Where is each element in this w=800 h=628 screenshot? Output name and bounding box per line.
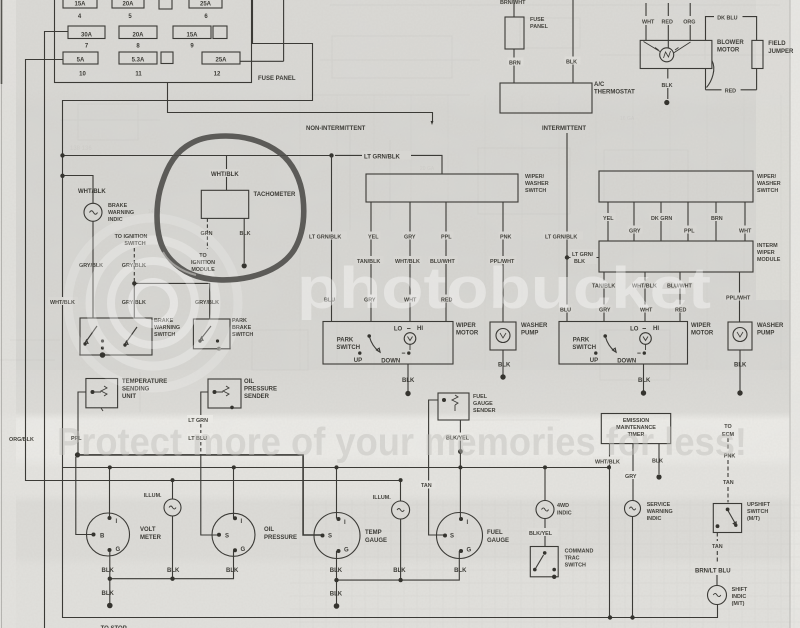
svg-text:GAUGE: GAUGE xyxy=(365,538,387,544)
fuse 25A #12 xyxy=(202,52,240,64)
fuse spare small row1 xyxy=(159,0,172,9)
wire PNK/TAN dashed from ECM xyxy=(727,438,729,502)
svg-text:FUSE: FUSE xyxy=(530,17,545,23)
svg-text:S: S xyxy=(328,534,332,540)
wire BLK tach ground xyxy=(243,218,245,263)
temperature sending unit box xyxy=(86,379,118,408)
svg-text:PRESSURE: PRESSURE xyxy=(264,535,297,541)
svg-text:FUEL: FUEL xyxy=(487,530,503,536)
svg-text:RED: RED xyxy=(725,88,736,94)
oil pressure sender box xyxy=(208,379,241,408)
svg-text:TRAC: TRAC xyxy=(565,556,580,562)
fuse 25A #6 xyxy=(189,0,222,8)
fuse 15A #9 xyxy=(173,26,211,39)
svg-text:G: G xyxy=(241,547,246,553)
svg-text:DOWN: DOWN xyxy=(381,358,400,364)
svg-text:BRN: BRN xyxy=(711,216,723,222)
svg-text:WHT/BLK: WHT/BLK xyxy=(211,172,239,178)
svg-text:BRAKE: BRAKE xyxy=(108,203,128,209)
drops to gauge I pins xyxy=(110,468,337,519)
svg-text:PPL: PPL xyxy=(684,229,695,235)
svg-text:MOTOR: MOTOR xyxy=(456,331,479,337)
switch2 to module wires xyxy=(608,202,745,241)
svg-text:PUMP: PUMP xyxy=(757,331,774,337)
wire GRN dashed to ignition module xyxy=(206,218,208,249)
svg-text:UP: UP xyxy=(354,358,362,364)
svg-text:INDIC: INDIC xyxy=(647,516,662,522)
svg-text:138 136: 138 136 xyxy=(70,146,92,152)
svg-text:GRY: GRY xyxy=(625,474,637,480)
svg-text:UNIT: UNIT xyxy=(122,394,136,400)
svg-text:HI: HI xyxy=(653,326,659,332)
svg-text:BLK: BLK xyxy=(102,591,115,597)
blower motor wires WHT RED ORG xyxy=(646,3,690,48)
svg-text:20 GA: 20 GA xyxy=(420,166,435,172)
svg-text:SWITCH: SWITCH xyxy=(525,188,546,194)
svg-text:WIPER: WIPER xyxy=(757,250,775,256)
svg-text:SENDER: SENDER xyxy=(473,408,496,414)
wire BLK to A/C thermostat xyxy=(572,0,574,83)
svg-text:DK BLU: DK BLU xyxy=(717,16,737,22)
svg-text:BLK: BLK xyxy=(330,568,343,574)
svg-text:BLK: BLK xyxy=(734,363,747,369)
svg-text:BLK: BLK xyxy=(393,568,406,574)
wire 30A fuse long left vertical xyxy=(45,32,69,628)
svg-text:BLOWER: BLOWER xyxy=(717,40,744,46)
interm wiper module box xyxy=(599,241,753,272)
svg-text:(M/T): (M/T) xyxy=(732,601,745,607)
brake warning switch box xyxy=(80,318,152,355)
wire gry/blk down to brake warning switch xyxy=(133,283,135,318)
wire LT GRN / LT BLU oil sender to oil gauge B xyxy=(201,392,208,412)
svg-text:MOTOR: MOTOR xyxy=(691,331,714,337)
svg-text:LO: LO xyxy=(394,327,403,333)
svg-text:YEL: YEL xyxy=(368,235,379,241)
upshift switch box xyxy=(713,504,741,533)
svg-text:METER: METER xyxy=(140,535,162,541)
ground dot right gauge group xyxy=(334,603,340,609)
svg-text:BLK: BLK xyxy=(662,83,673,89)
svg-text:WARNING: WARNING xyxy=(108,210,134,216)
svg-text:15A: 15A xyxy=(74,2,86,8)
wire BRN/LT BLU to shift indic xyxy=(716,575,718,586)
4WD indic lamp xyxy=(536,501,554,519)
svg-text:PUMP: PUMP xyxy=(521,331,538,337)
svg-text:COMMAND: COMMAND xyxy=(565,549,594,555)
svg-text:SWITCH: SWITCH xyxy=(572,345,596,351)
wire fuel sender down through bus2 to fuel I xyxy=(459,420,461,519)
oil pressure gauge xyxy=(212,513,255,556)
fuse panel connector box top-right xyxy=(505,17,524,49)
wire TAN below upshift dashed xyxy=(716,533,718,564)
wire GRY to service warning indic xyxy=(632,444,634,501)
park brake switch box xyxy=(193,319,230,349)
svg-text:5.3A: 5.3A xyxy=(132,58,145,64)
svg-text:FUSE PANEL: FUSE PANEL xyxy=(258,76,296,82)
svg-text:PPL: PPL xyxy=(441,235,452,241)
svg-text:BLK: BLK xyxy=(240,231,251,237)
svg-text:OIL: OIL xyxy=(244,379,254,385)
node fuel sender splice xyxy=(458,449,463,454)
wire BLK gauge grounds right group xyxy=(337,519,460,580)
wire to-ignition-switch dashed xyxy=(133,248,135,283)
svg-text:WHT: WHT xyxy=(642,20,655,26)
svg-text:SENDER: SENDER xyxy=(244,394,270,400)
wire PPL temp unit to bus xyxy=(78,392,86,453)
emission maintenance timer box xyxy=(601,414,670,444)
hand-drawn marker circle around tachometer xyxy=(157,136,304,280)
node junctions left xyxy=(60,153,64,157)
svg-text:BLK: BLK xyxy=(402,378,415,384)
command trac switch box xyxy=(530,547,558,577)
svg-text:VOLT: VOLT xyxy=(140,527,156,533)
svg-text:WHT/BLK: WHT/BLK xyxy=(78,189,106,195)
svg-text:FIELD: FIELD xyxy=(768,41,786,47)
shift indic lamp xyxy=(708,586,727,605)
wire brake warning indic down xyxy=(92,221,94,318)
svg-text:WHT: WHT xyxy=(739,229,752,235)
fuse panel outline xyxy=(55,0,252,83)
svg-text:FUEL: FUEL xyxy=(473,394,488,400)
temp gauge xyxy=(314,513,360,559)
svg-text:OIL: OIL xyxy=(264,527,274,533)
wire LT GRN/BLK feed to wiper switch 1 xyxy=(331,155,333,322)
svg-text:SWITCH: SWITCH xyxy=(747,509,768,515)
fuse 30A #7 xyxy=(68,26,105,39)
junction nodes on WHT/BLK bus xyxy=(108,465,112,469)
svg-text:WASHER: WASHER xyxy=(521,323,548,329)
wire WHT/BLK tach feed horizontal xyxy=(63,155,332,157)
svg-text:BLK: BLK xyxy=(566,60,577,66)
svg-text:G: G xyxy=(467,548,472,554)
svg-text:BLK: BLK xyxy=(498,363,511,369)
svg-text:25A: 25A xyxy=(215,58,227,64)
svg-text:HI: HI xyxy=(417,326,423,332)
wiper motor 2 box xyxy=(559,322,688,365)
svg-text:SWITCH: SWITCH xyxy=(336,345,360,351)
module output wires xyxy=(604,272,740,322)
wire brake warning indic feed xyxy=(63,176,94,204)
wiper/washer switch 1 box xyxy=(366,174,518,202)
svg-text:BLK: BLK xyxy=(226,568,239,574)
svg-text:12: 12 xyxy=(214,72,221,78)
fuse spare small row2 xyxy=(213,26,227,39)
svg-text:GAUGE: GAUGE xyxy=(473,401,493,407)
svg-text:16 GA: 16 GA xyxy=(620,116,635,122)
fuse 20A #8 xyxy=(119,26,157,39)
A/C thermostat box xyxy=(500,83,592,113)
svg-text:ILLUM.: ILLUM. xyxy=(144,493,162,499)
wire 4wd indic drop xyxy=(544,467,546,500)
svg-text:PNK: PNK xyxy=(500,235,511,241)
DK BLU bracket xyxy=(706,17,757,41)
svg-text:5A: 5A xyxy=(77,58,85,64)
volt meter gauge xyxy=(87,513,130,556)
svg-text:PPL/WHT: PPL/WHT xyxy=(726,296,751,302)
svg-text:B: B xyxy=(100,534,105,540)
svg-text:WARNING: WARNING xyxy=(647,509,673,515)
svg-text:SWITCH: SWITCH xyxy=(757,188,778,194)
svg-text:A/C: A/C xyxy=(594,82,605,88)
faint scan ghost texture xyxy=(0,5,790,420)
svg-text:LT GRN/BLK: LT GRN/BLK xyxy=(364,155,401,161)
wire WHT/BLK timer leg xyxy=(609,444,611,618)
svg-text:WASHER: WASHER xyxy=(757,181,781,187)
svg-text:JUMPER: JUMPER xyxy=(768,49,794,55)
tachometer U1 box xyxy=(201,190,248,218)
wiper/washer switch 2 box xyxy=(599,171,753,202)
svg-text:ILLUM.: ILLUM. xyxy=(373,495,391,501)
svg-text:INDIC: INDIC xyxy=(732,594,747,600)
wire volt meter B stub xyxy=(76,457,94,535)
svg-text:S: S xyxy=(225,534,229,540)
wire TAN fuel B feed xyxy=(429,400,444,535)
wire WHT/BLK I-pin bus xyxy=(63,467,610,469)
wire thick PPL bus to temp gauge B xyxy=(78,455,324,535)
svg-text:WIPER: WIPER xyxy=(456,323,476,329)
fuse spare small row3 xyxy=(161,52,173,64)
svg-text:GRY: GRY xyxy=(629,229,641,235)
svg-text:GAUGE: GAUGE xyxy=(487,538,509,544)
svg-text:INDIC: INDIC xyxy=(557,511,572,517)
svg-text:PARK: PARK xyxy=(337,338,354,344)
svg-text:BLK: BLK xyxy=(330,592,343,598)
wire RED loop xyxy=(706,61,757,90)
svg-text:DOWN: DOWN xyxy=(617,358,636,364)
svg-text:G: G xyxy=(344,548,349,554)
svg-text:PRESSURE: PRESSURE xyxy=(244,387,277,393)
svg-text:BLK: BLK xyxy=(167,568,180,574)
svg-text:TAN: TAN xyxy=(723,480,734,486)
svg-text:TAN: TAN xyxy=(421,483,432,489)
washer pump 2 box xyxy=(728,322,752,350)
fuse 15A #4 xyxy=(63,0,97,8)
svg-text:20A: 20A xyxy=(122,2,134,8)
wire BLK/YEL to command trac xyxy=(544,519,546,547)
svg-text:RED: RED xyxy=(662,20,673,26)
svg-text:BLK: BLK xyxy=(454,568,467,574)
svg-text:WASHER: WASHER xyxy=(525,181,549,187)
svg-text:TEMP: TEMP xyxy=(365,530,382,536)
svg-text:BRN/LT BLU: BRN/LT BLU xyxy=(695,569,731,575)
wire BLK washer1 ground xyxy=(502,350,504,375)
fuel gauge xyxy=(437,513,483,559)
blower motor box xyxy=(640,40,712,68)
svg-text:WIPER/: WIPER/ xyxy=(757,174,777,180)
svg-text:INTERMITTENT: INTERMITTENT xyxy=(542,126,586,132)
svg-text:4WD: 4WD xyxy=(557,503,569,509)
service warning indic lamp xyxy=(625,501,641,517)
svg-text:NON-INTERMITTENT: NON-INTERMITTENT xyxy=(306,126,366,132)
fuse 5.3A #11 xyxy=(119,52,157,64)
svg-text:TAN: TAN xyxy=(712,544,723,550)
wire 25A fuse12 up to top edge xyxy=(240,0,284,61)
svg-text:25A: 25A xyxy=(200,2,212,8)
wire tachometer drop xyxy=(226,156,228,191)
svg-text:BRN: BRN xyxy=(509,61,521,67)
svg-text:MOTOR: MOTOR xyxy=(717,48,740,54)
wire park brake switch branch xyxy=(134,283,209,319)
svg-text:SHIFT: SHIFT xyxy=(732,587,748,593)
svg-text:S: S xyxy=(450,534,454,540)
svg-text:LT GRN/BLK: LT GRN/BLK xyxy=(545,235,577,241)
scan left edge artifact xyxy=(1,0,3,84)
svg-text:BLK: BLK xyxy=(102,568,115,574)
svg-text:UPSHIFT: UPSHIFT xyxy=(747,502,771,508)
svg-text:LO: LO xyxy=(630,327,639,333)
ILLUM lamp L1 xyxy=(164,499,181,516)
svg-text:MODULE: MODULE xyxy=(757,257,781,263)
photobucket ring logo watermark xyxy=(68,218,238,388)
svg-text:ORG: ORG xyxy=(683,20,695,26)
svg-text:LT GRN/BLK: LT GRN/BLK xyxy=(309,235,341,241)
wire BLK gauge grounds left group xyxy=(110,516,234,579)
wire BLK wiper motor1 ground xyxy=(407,364,409,391)
svg-text:SERVICE: SERVICE xyxy=(647,502,671,508)
svg-text:THERMOSTAT: THERMOSTAT xyxy=(594,90,635,96)
svg-text:YEL: YEL xyxy=(603,216,614,222)
svg-text:(M/T): (M/T) xyxy=(747,516,760,522)
brake warning indic lamp xyxy=(84,203,102,221)
junction nodes on BLK ground buses xyxy=(108,577,112,581)
svg-text:15A: 15A xyxy=(186,33,198,39)
svg-text:TACHOMETER: TACHOMETER xyxy=(254,192,297,198)
wire fuse panel bottom to non-intermittent feed xyxy=(168,83,433,123)
svg-text:30A: 30A xyxy=(81,33,93,39)
junction nodes on ILLUM bus xyxy=(171,478,175,482)
svg-text:DK GRN: DK GRN xyxy=(651,216,672,222)
wire ILLUM lamp1 branch xyxy=(172,481,174,500)
svg-text:10: 10 xyxy=(79,72,86,78)
svg-text:photobucket: photobucket xyxy=(297,256,711,321)
svg-text:UP: UP xyxy=(590,358,598,364)
wire intermittent feed vertical xyxy=(566,133,568,322)
field jumper xyxy=(752,40,763,68)
wiper motor 1 box xyxy=(323,322,453,365)
wire BLK washer2 ground xyxy=(739,350,741,391)
svg-text:WIPER: WIPER xyxy=(691,323,711,329)
fuel gauge sender box xyxy=(438,393,469,420)
wire 5A fuse to ORG/BLK illum feed long vertical and ILLUM bus xyxy=(26,60,401,502)
svg-text:20A: 20A xyxy=(132,33,144,39)
arrow end non-intermittent feed xyxy=(431,121,434,125)
wire BLK wiper motor2 ground xyxy=(643,364,645,391)
wire BLK timer ground leg xyxy=(658,444,660,474)
svg-text:G: G xyxy=(116,547,121,553)
svg-text:ORG/BLK: ORG/BLK xyxy=(9,437,34,443)
svg-text:PARK: PARK xyxy=(573,338,590,344)
svg-text:SWITCH: SWITCH xyxy=(565,563,586,569)
fuse 5A #10 xyxy=(63,52,98,64)
svg-text:GRY: GRY xyxy=(404,235,416,241)
wire BLK blower ground xyxy=(667,69,669,100)
svg-text:WASHER: WASHER xyxy=(757,323,784,329)
ground dot left gauge group xyxy=(107,603,113,609)
switch1 output wires xyxy=(371,202,503,322)
svg-text:Protect more of your memories: Protect more of your memories for less! xyxy=(57,421,747,464)
wire BRN to A/C thermostat xyxy=(513,49,515,83)
svg-text:BLK: BLK xyxy=(638,378,651,384)
svg-text:BLK/YEL: BLK/YEL xyxy=(529,531,553,537)
washer pump 1 box xyxy=(490,322,516,350)
svg-text:PANEL: PANEL xyxy=(530,24,549,30)
svg-text:INTERM: INTERM xyxy=(757,243,778,249)
ILLUM lamp L2 xyxy=(392,501,410,519)
fuse 20A #5 xyxy=(112,0,144,8)
svg-text:WIPER/: WIPER/ xyxy=(525,174,545,180)
svg-text:11: 11 xyxy=(135,72,142,78)
svg-text:BRN/WHT: BRN/WHT xyxy=(500,0,526,6)
